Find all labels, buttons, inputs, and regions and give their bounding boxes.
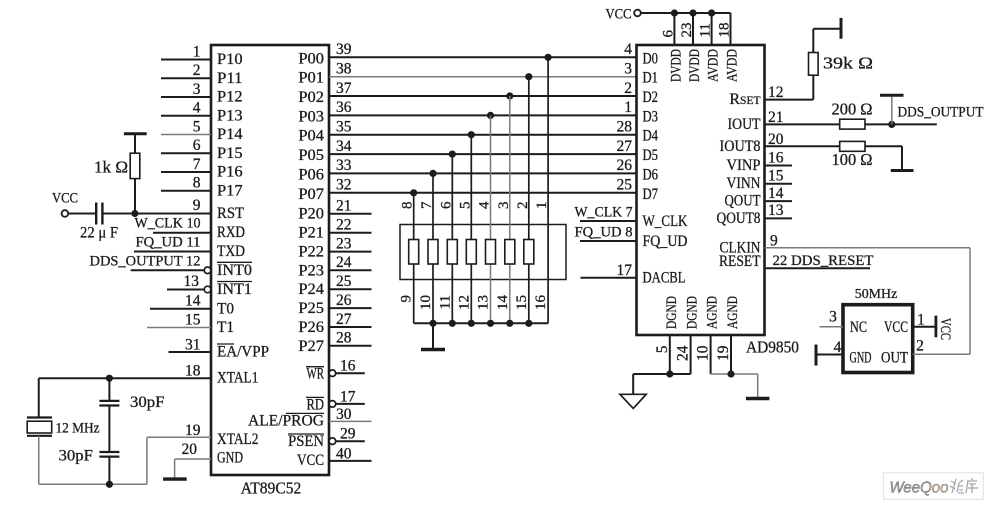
U1 pin 1 P10 wire bbox=[161, 59, 211, 61]
svg-text:P23: P23 bbox=[298, 262, 324, 279]
svg-text:1: 1 bbox=[624, 99, 632, 116]
svg-text:DDS_OUTPUT 12: DDS_OUTPUT 12 bbox=[90, 253, 201, 269]
junction dot on P06 wire bbox=[429, 170, 436, 177]
svg-text:T1: T1 bbox=[217, 319, 234, 336]
svg-text:4: 4 bbox=[477, 201, 493, 209]
svg-text:4: 4 bbox=[193, 100, 201, 117]
svg-text:21: 21 bbox=[768, 109, 784, 126]
svg-text:DGND: DGND bbox=[664, 296, 680, 329]
RP1 resistor element body 2 bbox=[428, 240, 438, 265]
svg-text:3: 3 bbox=[829, 308, 837, 325]
svg-text:30pF: 30pF bbox=[59, 448, 94, 465]
svg-text:3: 3 bbox=[496, 202, 512, 210]
svg-text:NC: NC bbox=[850, 319, 867, 336]
svg-text:34: 34 bbox=[336, 138, 352, 155]
svg-text:13: 13 bbox=[768, 202, 784, 219]
U1 pin 29 PSEN stub with bubble bbox=[329, 438, 336, 445]
svg-text:GND: GND bbox=[850, 349, 872, 366]
U2 top pin 11 wire bbox=[711, 13, 713, 45]
svg-text:3: 3 bbox=[624, 61, 632, 78]
U2 bottom pin 24 wire bbox=[690, 335, 692, 374]
svg-text:6: 6 bbox=[438, 201, 454, 209]
U1 pin 26 P25 stub wire bbox=[329, 307, 372, 309]
svg-text:DVDD: DVDD bbox=[668, 49, 684, 82]
junction dot DGND bus bbox=[666, 370, 673, 377]
svg-text:17: 17 bbox=[340, 388, 356, 405]
svg-text:2: 2 bbox=[515, 202, 531, 210]
crystal Y1 body bbox=[27, 421, 52, 433]
IC U2 AD9850 body bbox=[637, 45, 765, 335]
RP1 bottom common bus wire bbox=[414, 322, 548, 324]
wire crystal bottom to ground bus bbox=[38, 436, 40, 485]
U1 pin 3 P12 wire bbox=[161, 96, 211, 98]
svg-text:P12: P12 bbox=[217, 89, 243, 106]
U2 bottom pin 5 wire bbox=[669, 335, 671, 374]
X1 VCC rail bar (vertical) bbox=[935, 316, 938, 338]
svg-text:P01: P01 bbox=[298, 70, 324, 87]
junction dot on P00 wire bbox=[545, 54, 552, 61]
junction dot on VCC rail bbox=[708, 9, 715, 16]
X1 pin 1 VCC stub bbox=[913, 326, 936, 328]
svg-text:P03: P03 bbox=[298, 108, 324, 125]
wire P05 to AD9850 D5 bbox=[329, 153, 637, 155]
svg-text:AVDD: AVDD bbox=[725, 49, 741, 82]
svg-text:3: 3 bbox=[193, 81, 201, 98]
junction dot on crystal ground bus bbox=[106, 481, 113, 488]
svg-text:QOUT8: QOUT8 bbox=[717, 210, 761, 227]
svg-text:FQ_UD 11: FQ_UD 11 bbox=[136, 235, 201, 251]
svg-text:D1: D1 bbox=[643, 70, 659, 87]
svg-text:WeeQoo: WeeQoo bbox=[890, 480, 949, 497]
svg-text:10: 10 bbox=[418, 295, 434, 310]
RP1 column wire (pin 3/14) bbox=[509, 96, 511, 323]
svg-text:IOUT8: IOUT8 bbox=[720, 138, 761, 155]
crystal ground bus wire bbox=[39, 483, 147, 485]
svg-text:D5: D5 bbox=[643, 147, 659, 164]
U2 top pin 23 wire bbox=[692, 13, 694, 45]
svg-text:ALE/PROG: ALE/PROG bbox=[248, 412, 324, 429]
X1 pin 4 GND stub bbox=[816, 354, 843, 356]
svg-text:P14: P14 bbox=[217, 126, 243, 143]
svg-text:D4: D4 bbox=[643, 128, 659, 145]
svg-text:2: 2 bbox=[916, 338, 924, 355]
wire down to crystal Y1 bbox=[38, 378, 40, 417]
VCC rail bar above R1 bbox=[124, 132, 147, 135]
U2 pin 22 RESET wire / net DDS_RESET bbox=[765, 267, 871, 269]
svg-text:GND: GND bbox=[217, 450, 243, 467]
RP1 column wire (pin 2/15) bbox=[528, 77, 530, 324]
svg-text:4: 4 bbox=[834, 339, 842, 356]
svg-text:24: 24 bbox=[336, 254, 352, 271]
svg-text:6: 6 bbox=[193, 137, 201, 154]
svg-text:9: 9 bbox=[399, 295, 415, 303]
svg-text:19: 19 bbox=[185, 422, 201, 439]
svg-text:VCC: VCC bbox=[606, 7, 632, 23]
svg-text:AGND: AGND bbox=[705, 296, 721, 329]
junction dot XTAL1/C2 node bbox=[106, 375, 113, 382]
svg-text:7: 7 bbox=[419, 201, 435, 209]
svg-text:DVDD: DVDD bbox=[687, 49, 703, 82]
svg-text:18: 18 bbox=[717, 23, 733, 38]
svg-text:12 MHz: 12 MHz bbox=[56, 420, 100, 436]
capacitor C2 30pF plates bbox=[99, 400, 119, 402]
svg-text:30: 30 bbox=[336, 406, 352, 423]
RP1 resistor element body 6 bbox=[505, 240, 515, 265]
svg-text:24: 24 bbox=[675, 345, 692, 361]
svg-text:P13: P13 bbox=[217, 107, 243, 124]
svg-text:D2: D2 bbox=[643, 89, 659, 106]
ground symbol (open triangle) for DGND bbox=[620, 394, 646, 408]
svg-text:P11: P11 bbox=[217, 70, 243, 87]
crystal Y1 bottom plate bbox=[27, 435, 52, 437]
svg-text:11: 11 bbox=[437, 295, 453, 309]
U1 pin 23 P22 stub wire bbox=[329, 251, 372, 253]
U1 pin 13 INT1 wire bbox=[167, 289, 205, 291]
junction dot on P02 wire bbox=[506, 92, 513, 99]
resistor network RP1 outline box bbox=[400, 225, 566, 280]
junction dot on P04 wire bbox=[468, 131, 475, 138]
svg-text:DACBL: DACBL bbox=[643, 270, 686, 287]
svg-text:P05: P05 bbox=[298, 147, 324, 164]
svg-text:28: 28 bbox=[336, 330, 352, 347]
svg-text:27: 27 bbox=[617, 138, 633, 155]
wire P06 to AD9850 D6 bbox=[329, 172, 637, 174]
svg-text:P16: P16 bbox=[217, 164, 243, 181]
svg-text:38: 38 bbox=[336, 61, 352, 78]
IC U1 AT89C52 body bbox=[211, 45, 329, 475]
junction dot on RP1 bus bbox=[487, 320, 494, 327]
RP1 resistor element body 3 bbox=[447, 240, 457, 265]
svg-text:D7: D7 bbox=[643, 186, 659, 203]
wire C2 to C3 bbox=[108, 406, 110, 452]
RP1 column wire (pin 7/10) bbox=[432, 173, 434, 323]
svg-text:VCC: VCC bbox=[297, 452, 324, 469]
RP1 column wire (pin 6/11) bbox=[451, 154, 453, 323]
svg-text:P25: P25 bbox=[298, 300, 324, 317]
junction dot on RP1 bus bbox=[429, 320, 436, 327]
svg-text:5: 5 bbox=[457, 202, 473, 210]
U1 pin 15 T1 wire bbox=[147, 327, 211, 329]
junction dot on RP1 bus bbox=[468, 320, 475, 327]
svg-text:RXD: RXD bbox=[217, 224, 245, 241]
junction dot on VCC rail bbox=[689, 9, 696, 16]
RP1 resistor element body 1 bbox=[409, 240, 419, 265]
wire down to AGND ground bar bbox=[757, 374, 759, 399]
svg-text:15: 15 bbox=[768, 168, 784, 185]
svg-text:14: 14 bbox=[495, 295, 511, 311]
wire GND (pin20) horizontal bbox=[175, 458, 211, 460]
svg-text:11: 11 bbox=[698, 23, 714, 37]
svg-text:P26: P26 bbox=[298, 319, 324, 336]
svg-text:25: 25 bbox=[336, 273, 352, 290]
svg-text:1k Ω: 1k Ω bbox=[94, 158, 128, 177]
svg-text:RD: RD bbox=[307, 396, 325, 413]
resistor R1 1k body bbox=[130, 153, 140, 178]
svg-text:17: 17 bbox=[617, 262, 633, 279]
RP1 resistor element body 5 bbox=[486, 240, 496, 265]
crystal Y1 top plate bbox=[27, 416, 52, 418]
svg-text:13: 13 bbox=[476, 295, 492, 310]
U2 pin 7 W_CLK wire bbox=[580, 220, 637, 222]
junction dot AGND bus bbox=[727, 370, 734, 377]
U2 pin 20 IOUT8 wire to R4 bbox=[765, 145, 840, 147]
svg-text:P24: P24 bbox=[298, 281, 324, 298]
junction dot on P07 wire bbox=[410, 189, 417, 196]
svg-text:RESET: RESET bbox=[719, 253, 761, 270]
junction dot on VCC rail bbox=[671, 9, 678, 16]
U1 pin 7 P16 wire bbox=[161, 171, 211, 173]
svg-text:26: 26 bbox=[617, 157, 633, 174]
svg-text:P21: P21 bbox=[298, 225, 324, 242]
U2 pin 9 CLKIN wire bbox=[765, 247, 971, 249]
svg-text:XTAL1: XTAL1 bbox=[217, 370, 259, 387]
svg-text:14: 14 bbox=[768, 185, 784, 202]
U2 pin 8 FQ_UD wire bbox=[580, 240, 637, 242]
junction dot on RP1 bus bbox=[506, 320, 513, 327]
VCC terminal circle (top) bbox=[634, 10, 641, 17]
svg-text:P00: P00 bbox=[298, 50, 324, 67]
svg-text:PSEN: PSEN bbox=[288, 433, 324, 450]
svg-text:D3: D3 bbox=[643, 108, 659, 125]
svg-text:2: 2 bbox=[624, 80, 632, 97]
svg-text:IOUT: IOUT bbox=[728, 116, 761, 133]
svg-text:6: 6 bbox=[660, 30, 676, 38]
U2 bottom pin 10 wire bbox=[710, 335, 712, 374]
svg-text:AVDD: AVDD bbox=[706, 49, 722, 82]
svg-text:P27: P27 bbox=[298, 338, 324, 355]
svg-text:28: 28 bbox=[617, 119, 633, 136]
svg-text:AT89C52: AT89C52 bbox=[241, 479, 302, 498]
rail bar above DDS_OUTPUT node bbox=[880, 94, 904, 97]
X1 pin 4 ground bar (vertical) bbox=[815, 345, 818, 366]
wire CLKIN riser down to oscillator OUT bbox=[969, 248, 971, 354]
capacitor C3 30pF plates bbox=[99, 451, 119, 453]
svg-text:INT0: INT0 bbox=[217, 262, 252, 279]
svg-text:14: 14 bbox=[185, 293, 201, 310]
RP1 resistor element body 4 bbox=[466, 240, 476, 265]
wire AGND pins to bar ground bbox=[711, 373, 758, 375]
U2 pin 15 VINN stub wire bbox=[765, 183, 793, 185]
svg-text:1: 1 bbox=[534, 202, 550, 210]
svg-text:15: 15 bbox=[185, 311, 201, 328]
svg-text:40: 40 bbox=[336, 445, 352, 462]
resistor R3 200 ohm body bbox=[840, 119, 865, 129]
wire P04 to AD9850 D4 bbox=[329, 134, 637, 136]
U1 pin 24 P23 stub wire bbox=[329, 269, 372, 271]
svg-text:27: 27 bbox=[336, 311, 352, 328]
junction dot RST node bbox=[131, 210, 138, 217]
svg-text:16: 16 bbox=[533, 295, 549, 311]
svg-text:WR: WR bbox=[307, 366, 325, 383]
svg-text:AGND: AGND bbox=[725, 296, 741, 329]
svg-text:1: 1 bbox=[917, 311, 925, 328]
U1 pin 5 P14 wire bbox=[161, 134, 211, 136]
U1 pin 30 ALE/PROG stub bbox=[329, 420, 372, 422]
watermark box WeeQoo bbox=[884, 473, 984, 500]
svg-text:16: 16 bbox=[768, 149, 784, 166]
svg-text:8: 8 bbox=[193, 175, 201, 192]
svg-text:32: 32 bbox=[336, 177, 352, 194]
U1 pin 16 WR stub with bubble bbox=[329, 370, 336, 377]
wire P00 to AD9850 D0 bbox=[329, 56, 637, 58]
svg-text:OUT: OUT bbox=[881, 349, 908, 366]
U1 pin 9 RST wire segment (dot to chip) bbox=[135, 213, 211, 215]
svg-text:12: 12 bbox=[768, 84, 784, 101]
svg-text:FQ_UD 8: FQ_UD 8 bbox=[575, 225, 633, 241]
U1 pin 6 P15 wire bbox=[161, 152, 211, 154]
U1 pin 12 inversion bubble bbox=[204, 267, 211, 274]
RP1 column wire (pin 8/9) bbox=[413, 193, 415, 323]
svg-text:QOUT: QOUT bbox=[725, 193, 761, 210]
svg-text:INT1: INT1 bbox=[217, 281, 252, 298]
svg-text:W_CLK 10: W_CLK 10 bbox=[135, 216, 201, 232]
svg-text:EA/VPP: EA/VPP bbox=[217, 344, 269, 361]
wire DDS_OUTPUT node up to rail bar bbox=[891, 96, 893, 124]
wire C1 to RST node bbox=[102, 213, 134, 215]
ground bar below R4 bbox=[891, 169, 914, 172]
RP1 column wire (pin 5/12) bbox=[470, 135, 472, 324]
oscillator X1 body bbox=[843, 305, 913, 373]
svg-text:22 μ F: 22 μ F bbox=[80, 225, 118, 242]
svg-text:VCC: VCC bbox=[937, 318, 953, 340]
svg-text:10: 10 bbox=[695, 345, 712, 361]
svg-text:P17: P17 bbox=[217, 182, 243, 199]
U2 top pin 18 wire bbox=[730, 13, 732, 45]
U1 pin 40 VCC stub bbox=[329, 460, 372, 462]
U2 pin 12 RSET wire to R2 bbox=[765, 99, 814, 101]
watermark glyph wei (drawn) bbox=[950, 479, 964, 493]
svg-text:9: 9 bbox=[770, 232, 778, 249]
U1 pin 13 inversion bubble bbox=[204, 286, 211, 293]
U1 pin 25 P24 stub wire bbox=[329, 288, 372, 290]
svg-text:20: 20 bbox=[182, 441, 198, 458]
wire XTAL2 (pin19) horizontal bbox=[147, 436, 211, 438]
wire XTAL1 (pin18) horizontal bbox=[39, 377, 211, 379]
VCC rail bar (vertical) for R2 bbox=[840, 18, 843, 39]
U2 bottom pin 19 wire bbox=[730, 335, 732, 374]
svg-text:XTAL2: XTAL2 bbox=[217, 431, 259, 448]
svg-text:P15: P15 bbox=[217, 145, 243, 162]
svg-text:5: 5 bbox=[193, 118, 201, 135]
U1 pin 2 P11 wire bbox=[161, 77, 211, 79]
U2 pin 21 IOUT wire to R3 bbox=[765, 123, 840, 125]
RP1 resistor element body 7 bbox=[524, 240, 534, 265]
wire VCC to capacitor C1 bbox=[68, 213, 96, 215]
svg-text:DGND: DGND bbox=[685, 296, 701, 329]
junction dot on P03 wire bbox=[487, 112, 494, 119]
wire P01 to AD9850 D1 bbox=[329, 76, 637, 78]
U1 pin 11 TXD wire / net FQ_UD bbox=[134, 251, 211, 253]
svg-text:23: 23 bbox=[336, 235, 352, 252]
U1 pin 8 P17 wire bbox=[161, 190, 211, 192]
svg-text:25: 25 bbox=[617, 177, 633, 194]
svg-text:TXD: TXD bbox=[217, 243, 245, 260]
U1 pin 10 RXD wire / net W_CLK bbox=[153, 232, 211, 234]
svg-text:VINP: VINP bbox=[727, 157, 761, 174]
svg-text:35: 35 bbox=[336, 119, 352, 136]
svg-text:23: 23 bbox=[679, 23, 695, 38]
U1 pin 21 P20 stub wire bbox=[329, 213, 372, 215]
svg-text:22 DDS_RESET: 22 DDS_RESET bbox=[773, 253, 874, 269]
svg-text:P10: P10 bbox=[217, 51, 243, 68]
svg-text:P04: P04 bbox=[298, 128, 324, 145]
svg-text:P06: P06 bbox=[298, 166, 324, 183]
junction dot on P01 wire bbox=[525, 73, 532, 80]
svg-text:26: 26 bbox=[336, 292, 352, 309]
junction dot on RP1 bus bbox=[449, 320, 456, 327]
wire DGND pins to triangle ground bbox=[633, 373, 690, 375]
U1 pin 12 INT0 wire / net DDS_OUTPUT bbox=[131, 269, 205, 271]
svg-text:D0: D0 bbox=[643, 50, 659, 67]
svg-text:VINN: VINN bbox=[727, 175, 761, 192]
svg-text:18: 18 bbox=[185, 363, 201, 380]
wire C3 bottom to ground bus bbox=[108, 457, 110, 485]
U1 pin 22 P21 stub wire bbox=[329, 232, 372, 234]
capacitor C1 22uF plates bbox=[95, 203, 97, 225]
svg-text:D6: D6 bbox=[643, 166, 659, 183]
wire RST node up to resistor R1 bbox=[134, 179, 136, 214]
wire XTAL2 down to bus bbox=[146, 437, 148, 484]
svg-text:P22: P22 bbox=[298, 244, 324, 261]
svg-text:2: 2 bbox=[193, 62, 201, 79]
svg-text:39: 39 bbox=[336, 41, 352, 58]
svg-text:36: 36 bbox=[336, 99, 352, 116]
ground bar below RP1 bbox=[421, 348, 445, 351]
svg-text:9: 9 bbox=[193, 197, 201, 214]
ground bar for AGND bbox=[746, 397, 770, 400]
DDS_OUTPUT net stub wire bbox=[892, 123, 937, 125]
svg-text:12: 12 bbox=[456, 295, 472, 310]
svg-text:AD9850: AD9850 bbox=[746, 337, 799, 356]
wire R1 top to VCC rail bar bbox=[134, 135, 136, 153]
U1 pin 4 P13 wire bbox=[161, 115, 211, 117]
svg-text:RST: RST bbox=[217, 205, 244, 222]
U2 top pin 6 wire bbox=[673, 13, 675, 45]
RP1 column wire (pin 1/16) bbox=[547, 57, 549, 323]
svg-text:1: 1 bbox=[193, 43, 201, 60]
wire down to triangle ground bbox=[632, 374, 634, 394]
svg-text:DDS_OUTPUT: DDS_OUTPUT bbox=[898, 105, 984, 121]
svg-text:VCC: VCC bbox=[52, 191, 78, 207]
svg-text:P20: P20 bbox=[298, 206, 324, 223]
svg-text:30pF: 30pF bbox=[130, 394, 165, 411]
svg-text:FQ_UD: FQ_UD bbox=[643, 233, 688, 250]
svg-text:W_CLK: W_CLK bbox=[643, 213, 688, 230]
wire R4 to ground bbox=[865, 145, 902, 147]
svg-text:7: 7 bbox=[193, 156, 201, 173]
X1 pin 3 NC stub bbox=[820, 326, 844, 328]
wire R2 top to VCC rail bar bbox=[812, 29, 814, 53]
svg-text:29: 29 bbox=[340, 426, 356, 443]
wire P07 to AD9850 D7 bbox=[329, 192, 637, 194]
junction dot DDS_OUTPUT node bbox=[888, 121, 895, 128]
svg-text:200 Ω: 200 Ω bbox=[832, 100, 873, 119]
wire P02 to AD9850 D2 bbox=[329, 95, 637, 97]
resistor R2 39k body bbox=[809, 53, 819, 76]
svg-text:20: 20 bbox=[768, 131, 784, 148]
svg-text:21: 21 bbox=[336, 198, 352, 215]
svg-text:22: 22 bbox=[336, 217, 352, 234]
svg-text:50MHz: 50MHz bbox=[855, 287, 898, 302]
U1 pin 28 P27 stub wire bbox=[329, 345, 372, 347]
wire R3 to DDS_OUTPUT node bbox=[865, 123, 892, 125]
svg-text:W_CLK 7: W_CLK 7 bbox=[575, 205, 633, 221]
U2 pin 14 QOUT stub wire bbox=[765, 200, 793, 202]
svg-text:8: 8 bbox=[400, 202, 416, 210]
wire VCC rail to U2 supply pins bbox=[641, 12, 731, 14]
svg-text:100 Ω: 100 Ω bbox=[832, 150, 873, 169]
U1 pin 27 P26 stub wire bbox=[329, 326, 372, 328]
